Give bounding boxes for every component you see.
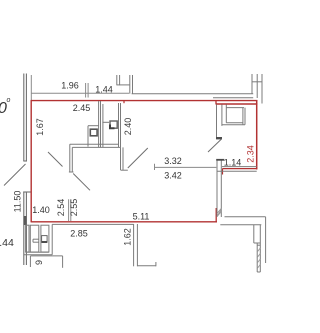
- door swing closet: [128, 148, 148, 168]
- svg-text:2.34: 2.34: [246, 145, 256, 163]
- svg-text:11.50: 11.50: [13, 191, 23, 213]
- vent square right: [110, 121, 117, 128]
- wall hallway left stub: [69, 144, 74, 172]
- dimension extension top-left: [30, 75, 32, 100]
- room-below corner wall: [52, 224, 133, 254]
- svg-text:3.42: 3.42: [164, 171, 182, 181]
- svg-text:2.85: 2.85: [70, 229, 88, 239]
- wall top horizontal inner: [213, 97, 253, 99]
- svg-text:1.62: 1.62: [123, 228, 133, 246]
- wall stub dark cap: [216, 137, 222, 139]
- wardrobe outline: [222, 105, 245, 125]
- red unit outline top: [31, 100, 258, 102]
- wall stub right-center with cap: [217, 105, 222, 140]
- fixture 2 notch: [33, 239, 39, 242]
- svg-text:3.32: 3.32: [164, 156, 182, 166]
- svg-text:1.67: 1.67: [35, 118, 45, 136]
- neighbor wall right outer: [265, 217, 267, 263]
- lower rect outline: [30, 256, 62, 268]
- dimension line 3.32/3.42: [154, 166, 216, 168]
- wall notch horizontal pair: [217, 167, 257, 172]
- wall left-exterior dark segment: [24, 216, 27, 225]
- fixture rect 1: [26, 225, 29, 252]
- door swing left-exterior: [4, 164, 26, 186]
- red unit outline left: [30, 100, 32, 222]
- neighbor wall hatch lower: [257, 248, 260, 269]
- wall bottom-middle vertical: [134, 224, 138, 266]
- neighbor wall hatch top: [217, 210, 221, 217]
- fixtures bottom line 2: [24, 254, 52, 256]
- svg-text:.44: .44: [0, 237, 14, 249]
- dimension line top y93: [31, 92, 129, 94]
- svg-text:2.55: 2.55: [69, 199, 79, 217]
- neighbor wall bottom cap: [257, 271, 260, 273]
- wall jamb bracket top: [117, 75, 133, 94]
- wall jamb top-right: [252, 74, 262, 104]
- neighbor wall horizontal top: [225, 216, 266, 218]
- fixture rect 3: [41, 225, 49, 252]
- wall top horizontal: [132, 93, 254, 95]
- red tick 1.14 left: [222, 169, 224, 175]
- fixtures bottom line: [26, 251, 49, 253]
- svg-text:1.96: 1.96: [61, 81, 79, 91]
- wall left-exterior lower: [23, 192, 31, 266]
- wall bottom-middle foot: [137, 262, 156, 266]
- wall hallway horizontal: [70, 143, 119, 145]
- leader line 3.32: [208, 139, 222, 152]
- svg-text:1.14: 1.14: [224, 158, 242, 168]
- red step vertical: [215, 100, 217, 105]
- fixture 3 square dark bottom: [42, 241, 48, 243]
- svg-text:5.11: 5.11: [133, 212, 150, 222]
- wall vent-shaft divider: [102, 104, 104, 147]
- red unit outline top inner: [216, 103, 257, 105]
- wall right-lower vertical pair: [217, 160, 221, 218]
- red unit outline right: [256, 100, 258, 170]
- svg-text:o: o: [7, 97, 11, 104]
- svg-text:9: 9: [34, 260, 44, 265]
- dimension tick pair 2.54/2.55: [69, 199, 71, 221]
- fixture rect 2: [30, 225, 39, 252]
- dimension tick pair 1.96/1.44: [86, 83, 89, 98]
- svg-text:2.40: 2.40: [123, 118, 133, 136]
- door swing hallway left: [73, 174, 90, 191]
- svg-text:1.40: 1.40: [32, 205, 50, 215]
- neighbor wall right pair: [254, 225, 260, 272]
- svg-text:1.44: 1.44: [95, 85, 113, 95]
- wall vent-shaft left: [99, 101, 101, 147]
- red vertical near bottom-right corner: [215, 208, 217, 222]
- vent box left outline: [88, 126, 99, 147]
- dimension tick 3.32 left: [154, 164, 156, 170]
- fixture 3 square: [42, 236, 48, 243]
- vent tick right compartment: [102, 121, 109, 123]
- red notch dim line 1.14: [222, 168, 257, 170]
- door swing entry: [48, 152, 63, 167]
- wall closet lower stub: [121, 147, 128, 170]
- svg-text:2.45: 2.45: [73, 103, 91, 113]
- vent square left: [90, 129, 97, 136]
- wall hatch right-lower: [217, 209, 221, 214]
- wall closet right: [119, 103, 121, 147]
- wall left-exterior upper: [23, 74, 27, 162]
- wall hallway horizontal lower: [72, 146, 120, 148]
- neighbor wall junction tick: [254, 243, 260, 245]
- svg-text:2.54: 2.54: [56, 199, 66, 217]
- red tick 2.40 top: [123, 101, 125, 104]
- neighbor wall horizontal bottom: [220, 224, 261, 226]
- red unit outline bottom: [31, 221, 217, 223]
